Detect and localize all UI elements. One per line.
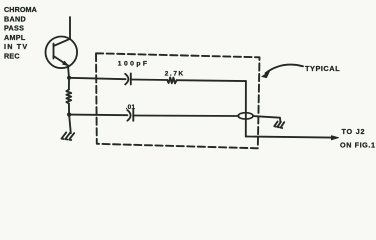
svg-text:IN TV: IN TV bbox=[4, 42, 28, 51]
value label 100pF bbox=[118, 60, 150, 67]
wire to left ground bbox=[69, 115, 71, 134]
wire capacitor to connector bbox=[133, 115, 238, 118]
svg-text:2.7K: 2.7K bbox=[165, 70, 185, 77]
svg-text:PASS: PASS bbox=[4, 24, 24, 33]
wire collector lead bbox=[69, 17, 71, 39]
wire output line to arrow TO J2 bbox=[246, 136, 339, 140]
connector J1 oval bbox=[238, 113, 253, 119]
wire bottom branch to capacitor bbox=[69, 114, 127, 117]
node label TO J2 bbox=[342, 127, 366, 136]
ground right chassis bbox=[274, 122, 284, 129]
annotation label TYPICAL bbox=[305, 64, 340, 73]
node label ON FIG.1 bbox=[340, 141, 376, 150]
ground left chassis bbox=[62, 132, 75, 140]
node junction dot A bbox=[67, 76, 71, 80]
transistor Q1 bbox=[46, 37, 78, 69]
svg-text:TO J2: TO J2 bbox=[342, 127, 366, 136]
wire emitter resistor leg bbox=[68, 78, 70, 115]
value label 2.7K bbox=[165, 70, 185, 77]
svg-text:100pF: 100pF bbox=[118, 60, 150, 67]
capacitor C2 .01 bbox=[127, 110, 133, 121]
wire emitter lead bbox=[68, 66, 69, 78]
svg-text:BAND: BAND bbox=[4, 14, 26, 23]
wire resistor to corner bbox=[177, 79, 246, 82]
svg-text:REC: REC bbox=[4, 51, 20, 60]
capacitor C1 100pF bbox=[125, 73, 131, 84]
annotation arrow to box bbox=[262, 65, 303, 78]
dashed enclosure box TYPICAL bbox=[96, 53, 260, 148]
value label .01 bbox=[126, 104, 136, 111]
wire connector to right ground bbox=[253, 116, 281, 122]
svg-text:.01: .01 bbox=[126, 104, 136, 111]
wire vertical through connector to lower corner bbox=[245, 81, 247, 136]
wire capacitor to resistor bbox=[131, 79, 167, 82]
svg-text:AMPL: AMPL bbox=[4, 33, 26, 42]
svg-text:TYPICAL: TYPICAL bbox=[305, 64, 340, 73]
resistor R2 emitter zigzag bbox=[66, 90, 71, 104]
node label CHROMA BAND PASS AMPL IN TV REC bbox=[4, 5, 37, 60]
wire top branch to capacitor bbox=[69, 78, 126, 79]
node junction dot B bbox=[67, 113, 71, 117]
resistor R1 2.7K bbox=[167, 77, 176, 83]
svg-text:ON FIG.1: ON FIG.1 bbox=[340, 141, 376, 150]
svg-text:CHROMA: CHROMA bbox=[4, 5, 37, 14]
